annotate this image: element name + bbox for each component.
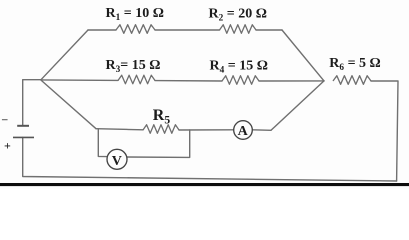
wire: voltmeter loop right leg xyxy=(127,130,190,157)
svg-text:–: – xyxy=(1,114,8,126)
resistor R6 xyxy=(333,76,371,85)
svg-text:A: A xyxy=(238,124,249,139)
resistor R4 xyxy=(222,76,259,85)
resistor R5 xyxy=(143,125,179,134)
wire: top branch between R1 and R2 xyxy=(155,29,220,31)
svg-text:R1 = 10 Ω: R1 = 10 Ω xyxy=(106,6,164,23)
wire: R6 to right side xyxy=(371,81,398,181)
svg-text:V: V xyxy=(112,154,122,169)
svg-text:R2 = 20 Ω: R2 = 20 Ω xyxy=(209,7,267,24)
battery xyxy=(13,126,34,138)
wire: bottom return wire xyxy=(23,138,397,182)
wire: top branch right diagonal to right junction xyxy=(282,30,324,81)
battery long plate (positive) xyxy=(13,136,34,138)
svg-text:R4 = 15 Ω: R4 = 15 Ω xyxy=(210,58,268,75)
wire: bottom branch between R5 and ammeter xyxy=(179,129,234,131)
svg-text:R6 = 5 Ω: R6 = 5 Ω xyxy=(329,56,380,73)
resistor R3 xyxy=(118,75,155,84)
wire: middle branch left segment xyxy=(41,79,118,82)
ammeter A xyxy=(234,121,253,140)
wire: left junction down diagonal to bottom branch xyxy=(41,80,96,129)
wire: bottom branch right segment xyxy=(253,129,272,132)
wire: voltmeter loop left leg xyxy=(98,129,107,157)
resistor R2 xyxy=(220,25,257,34)
bottom heavy rule xyxy=(0,183,409,186)
wire: bottom branch diagonal up to right junction xyxy=(271,81,324,130)
svg-text:R3= 15 Ω: R3= 15 Ω xyxy=(106,58,161,75)
svg-text:+: + xyxy=(4,139,11,153)
wire: bottom branch left segment xyxy=(96,129,143,130)
wire: middle branch between R3 and R4 xyxy=(155,80,222,82)
wire: top branch left segment xyxy=(88,29,116,31)
resistor R1 xyxy=(116,25,155,34)
wire: left junction up diagonal to top branch xyxy=(41,30,88,80)
battery short plate (negative) xyxy=(17,125,29,127)
wire: battery top to left junction xyxy=(23,80,41,126)
wire: middle branch right segment xyxy=(259,80,324,82)
voltmeter V xyxy=(107,149,127,169)
svg-text:R5: R5 xyxy=(153,107,171,127)
wire: top branch right segment xyxy=(256,29,282,31)
